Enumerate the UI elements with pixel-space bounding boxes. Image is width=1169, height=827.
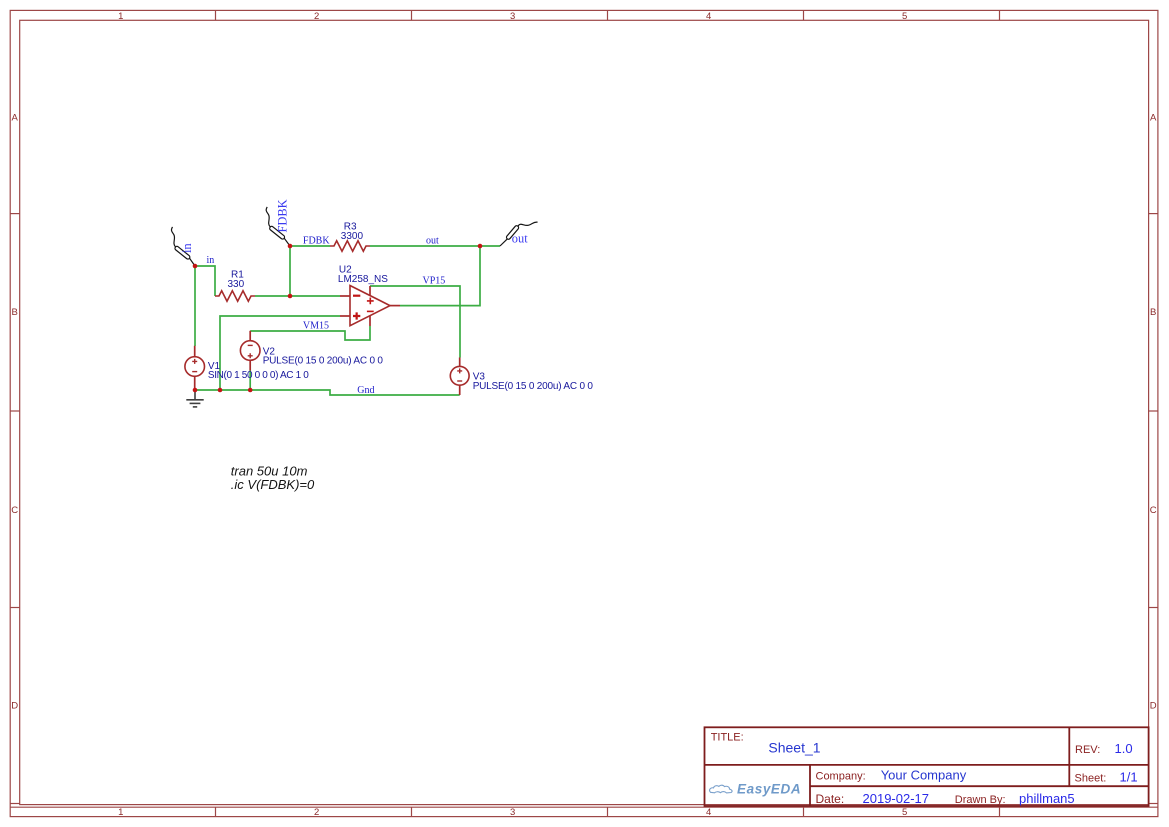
wire net VP15: op-amp V+ to V3 plus terminal bbox=[370, 286, 460, 358]
V1 bottom pin bbox=[194, 376, 196, 390]
svg-text:A: A bbox=[1150, 113, 1157, 124]
op-amp U2 inverting input minus mark bbox=[353, 295, 360, 297]
svg-text:B: B bbox=[12, 307, 18, 318]
svg-text:330: 330 bbox=[228, 279, 245, 290]
wire net out: R3 right to out probe bbox=[370, 245, 500, 247]
junction ground noninverting branch bbox=[218, 388, 223, 393]
svg-text:.ic V(FDBK)=0: .ic V(FDBK)=0 bbox=[231, 477, 315, 492]
svg-text:in: in bbox=[180, 243, 194, 253]
svg-text:3: 3 bbox=[510, 11, 515, 22]
svg-text:VM15: VM15 bbox=[303, 321, 329, 332]
svg-text:1.0: 1.0 bbox=[1115, 741, 1133, 756]
svg-text:1/1: 1/1 bbox=[1120, 770, 1138, 785]
V2 minus mark bbox=[248, 344, 253, 346]
svg-text:Date:: Date: bbox=[816, 792, 845, 806]
svg-text:phillman5: phillman5 bbox=[1019, 791, 1075, 806]
op-amp U2 inverting input pin bbox=[340, 295, 350, 297]
wire net out: down and left to op-amp output bbox=[400, 246, 480, 306]
svg-text:D: D bbox=[11, 701, 18, 712]
op-amp U2 LM258_NS triangle bbox=[350, 286, 390, 326]
svg-text:out: out bbox=[426, 235, 439, 246]
svg-text:1: 1 bbox=[118, 807, 123, 818]
junction ground V2 bbox=[248, 388, 253, 393]
wire net VM15: op-amp V- to V2 minus terminal bbox=[250, 326, 370, 340]
junction node at inverting input wire bbox=[288, 294, 293, 299]
wire net in: probe junction down to V1 plus pin bbox=[194, 266, 196, 346]
wire V2 bottom to ground rail bbox=[249, 371, 251, 391]
svg-text:Sheet:: Sheet: bbox=[1075, 773, 1107, 785]
ground symbol bbox=[186, 390, 203, 407]
op-amp U2 non-inverting input pin bbox=[340, 315, 350, 317]
svg-text:FDBK: FDBK bbox=[303, 235, 330, 246]
wire net in: probe junction to R1 left bbox=[195, 266, 215, 296]
svg-text:Company:: Company: bbox=[816, 771, 866, 783]
svg-text:1: 1 bbox=[118, 11, 123, 22]
svg-text:D: D bbox=[1150, 701, 1157, 712]
junction node FDBK bbox=[288, 244, 293, 249]
svg-text:3300: 3300 bbox=[341, 231, 364, 242]
svg-text:out: out bbox=[512, 232, 528, 246]
svg-text:A: A bbox=[12, 113, 19, 124]
svg-text:SIN(0 1 50 0 0 0) AC 1 0: SIN(0 1 50 0 0 0) AC 1 0 bbox=[208, 370, 309, 381]
V2 plus mark bbox=[248, 353, 253, 358]
svg-text:LM258_NS: LM258_NS bbox=[338, 274, 388, 285]
op-amp U2 V- supply pin bbox=[369, 316, 371, 326]
svg-text:Drawn By:: Drawn By: bbox=[955, 794, 1006, 806]
op-amp U2 V+ supply pin bbox=[369, 286, 371, 296]
svg-text:Your Company: Your Company bbox=[881, 768, 967, 783]
V2 bottom pin bbox=[249, 360, 251, 370]
svg-text:TITLE:: TITLE: bbox=[711, 731, 744, 743]
V1 plus mark bbox=[192, 359, 197, 364]
junction node out bbox=[478, 244, 483, 249]
op-amp U2 V+ plus mark bbox=[367, 298, 374, 305]
svg-text:4: 4 bbox=[706, 11, 711, 22]
svg-text:C: C bbox=[1150, 505, 1157, 516]
svg-text:EasyEDA: EasyEDA bbox=[737, 782, 801, 797]
wire op-amp non-inverting input to ground rail bbox=[220, 316, 340, 390]
wire R1 right to op-amp inverting input bbox=[255, 295, 340, 297]
spice directive text bbox=[231, 464, 315, 492]
svg-text:FDBK: FDBK bbox=[275, 199, 289, 232]
svg-text:2: 2 bbox=[314, 807, 319, 818]
svg-text:3: 3 bbox=[510, 807, 515, 818]
wire net FDBK horizontal to R3 bbox=[290, 245, 330, 247]
op-amp U2 output pin bbox=[390, 305, 400, 307]
V1 top pin bbox=[194, 346, 196, 357]
svg-text:in: in bbox=[207, 255, 215, 266]
svg-text:VP15: VP15 bbox=[423, 276, 446, 287]
svg-text:B: B bbox=[1150, 307, 1156, 318]
wire net FDBK vertical bbox=[289, 246, 291, 296]
voltage probe out bbox=[500, 222, 538, 246]
V3 top pin bbox=[459, 358, 461, 367]
V1 minus mark bbox=[192, 371, 197, 373]
svg-text:2: 2 bbox=[314, 11, 319, 22]
voltage probe in bbox=[171, 227, 195, 266]
svg-text:Sheet_1: Sheet_1 bbox=[768, 739, 820, 755]
svg-text:C: C bbox=[11, 505, 18, 516]
svg-text:5: 5 bbox=[902, 807, 907, 818]
voltage probe FDBK bbox=[266, 207, 290, 246]
resistor R1 330 bbox=[215, 291, 255, 301]
svg-text:2019-02-17: 2019-02-17 bbox=[863, 791, 930, 806]
svg-text:5: 5 bbox=[902, 11, 907, 22]
junction ground V1 bbox=[193, 388, 198, 393]
op-amp U2 V- minus mark bbox=[367, 310, 374, 312]
wire net Gnd rail bbox=[195, 390, 460, 395]
V3 minus mark bbox=[457, 380, 462, 382]
V3 plus mark bbox=[457, 368, 462, 373]
svg-text:PULSE(0 15 0 200u) AC 0 0: PULSE(0 15 0 200u) AC 0 0 bbox=[263, 356, 384, 367]
V3 bottom pin bbox=[459, 385, 461, 395]
voltage source V1 body bbox=[185, 357, 205, 377]
svg-text:Gnd: Gnd bbox=[357, 385, 374, 396]
svg-text:REV:: REV: bbox=[1075, 744, 1100, 756]
op-amp U2 non-inverting input plus mark bbox=[353, 312, 360, 319]
voltage source V3 body bbox=[450, 366, 469, 385]
voltage source V2 body bbox=[240, 341, 260, 361]
resistor R3 3300 bbox=[330, 241, 370, 251]
svg-text:4: 4 bbox=[706, 807, 711, 818]
junction node in bbox=[193, 264, 198, 269]
V2 top pin bbox=[249, 331, 251, 341]
svg-text:PULSE(0 15 0 200u) AC 0 0: PULSE(0 15 0 200u) AC 0 0 bbox=[473, 381, 594, 392]
